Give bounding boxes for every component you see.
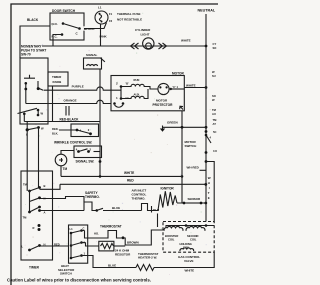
svg-text:SO: SO (212, 94, 216, 98)
wire jog neutral to valve (206, 162, 214, 222)
connector chevrons left (131, 43, 139, 49)
wire WHITE motor to neutral (184, 87, 206, 89)
svg-text:SENSOR: SENSOR (188, 197, 202, 201)
wire WHITE bus (61, 175, 182, 177)
resistor 24K (82, 243, 99, 247)
svg-text:SECOND: SECOND (187, 234, 199, 238)
svg-text:MOTOR: MOTOR (172, 72, 185, 76)
svg-text:SIGNAL: SIGNAL (86, 53, 98, 57)
svg-text:W: W (212, 70, 215, 74)
contact pair W upper (37, 109, 40, 112)
svg-text:WHITE: WHITE (124, 171, 134, 175)
svg-text:B: B (44, 184, 46, 188)
svg-text:3 8: 3 8 (213, 149, 217, 153)
svg-text:BLUE: BLUE (112, 206, 120, 210)
svg-text:WHITE: WHITE (185, 269, 195, 273)
node junction dots on neutral bus (205, 45, 208, 48)
svg-text:5C: 5C (213, 130, 216, 134)
svg-text:MOTOR: MOTOR (156, 99, 168, 103)
wire TM to signal switch (61, 151, 74, 155)
wire RED bus (60, 183, 206, 185)
connector chevrons right (159, 43, 167, 49)
wire BLACK door switch to fuse (84, 26, 96, 30)
svg-text:RED: RED (54, 242, 60, 246)
svg-text:AT: AT (213, 122, 217, 126)
svg-text:Caution Label of wires prior t: Caution Label of wires prior to disconne… (7, 278, 151, 283)
svg-text:BLACK: BLACK (27, 18, 39, 22)
switch blade long diagonal (18, 108, 38, 113)
svg-text:AU: AU (212, 112, 216, 116)
wire TM to white bus (60, 166, 62, 177)
svg-text:N: N (44, 197, 46, 201)
valve top bus (166, 225, 215, 227)
svg-text:GREEN: GREEN (167, 121, 178, 125)
timer common link (29, 191, 31, 212)
svg-text:F1: F1 (109, 12, 113, 16)
node BLU tag (151, 206, 153, 213)
svg-text:COIL: COIL (168, 238, 175, 242)
wire BLUE bottom row (82, 256, 137, 268)
svg-text:SU: SU (212, 74, 216, 78)
svg-text:ORANGE: ORANGE (64, 98, 77, 102)
svg-text:'C' 1: 'C' 1 (173, 85, 179, 89)
timer motor TM (55, 154, 67, 166)
svg-text:W: W (212, 98, 215, 102)
svg-text:TM: TM (23, 216, 28, 220)
safety thermo bump (84, 202, 97, 211)
centrifugal switch (113, 102, 116, 105)
svg-text:SWITCH: SWITCH (60, 272, 72, 276)
svg-text:THERMOSTAT: THERMOSTAT (100, 225, 122, 229)
wire stub pair (66, 106, 69, 116)
timer knob box (48, 72, 68, 86)
wire signal sw to white bus (94, 151, 101, 153)
wire RED timer to heat selector (40, 245, 69, 247)
svg-text:I: I (209, 186, 210, 190)
wire GREEN ground branch (163, 126, 207, 128)
svg-text:L: L (22, 245, 24, 249)
svg-text:WHITE: WHITE (186, 84, 196, 88)
contact L with blade (26, 122, 28, 192)
svg-text:4: 4 (80, 129, 82, 133)
wire timer N to safety (40, 197, 84, 203)
svg-text:RED: RED (127, 179, 134, 183)
second coil (186, 226, 205, 231)
svg-text:N.C.: N.C. (52, 35, 58, 39)
svg-text:T: T (208, 191, 210, 195)
svg-text:WHITE: WHITE (181, 38, 191, 42)
svg-text:NEUTRAL: NEUTRAL (198, 9, 216, 13)
wire PURPLE with hop-over arch (44, 87, 111, 90)
wire PINK row to cylinder light (42, 45, 206, 47)
svg-text:E: E (208, 196, 210, 200)
svg-text:PURPLE: PURPLE (72, 85, 84, 89)
svg-text:BOOSTER: BOOSTER (165, 234, 178, 238)
wire drop to timer B contact (38, 128, 40, 188)
svg-text:W: W (208, 176, 211, 180)
wire motor protector output down (181, 111, 183, 203)
svg-text:SWITCH: SWITCH (185, 144, 197, 148)
timer contact N (38, 196, 41, 199)
svg-text:1: 1 (84, 252, 86, 256)
svg-text:2: 2 (88, 128, 90, 132)
svg-text:SW-70: SW-70 (21, 53, 31, 57)
booster coil (164, 226, 183, 231)
svg-text:BLUE: BLUE (108, 264, 116, 268)
contact blade on safety line (96, 209, 99, 212)
svg-text:W: W (41, 112, 44, 116)
svg-text:4: 4 (210, 136, 212, 140)
heat selector switch (69, 225, 88, 263)
timer terminal pair R (38, 224, 41, 227)
wire signal box drop through arches (99, 69, 101, 176)
svg-text:F2: F2 (109, 19, 113, 23)
svg-text:2: 2 (90, 148, 92, 152)
svg-text:IGNITOR: IGNITOR (161, 187, 175, 191)
svg-text:KNOB: KNOB (53, 80, 63, 84)
svg-text:WH-RED: WH-RED (187, 165, 200, 169)
svg-text:A: A (44, 211, 46, 215)
svg-text:L1: L1 (70, 227, 74, 231)
svg-text:'B': 'B' (126, 82, 130, 86)
svg-text:THERMAL FUSE: THERMAL FUSE (117, 12, 140, 16)
svg-text:COIL: COIL (190, 238, 197, 242)
svg-text:BLK.: BLK. (52, 132, 59, 136)
svg-text:SIGNAL SW.: SIGNAL SW. (76, 160, 95, 164)
svg-text:R: R (33, 226, 35, 230)
svg-text:VALVE: VALVE (184, 259, 194, 263)
wire riser diagonal to red-black row (23, 114, 25, 122)
svg-text:RUN: RUN (134, 78, 140, 82)
svg-text:H: H (208, 181, 210, 185)
svg-text:CYLINDER: CYLINDER (135, 28, 151, 32)
svg-text:TM: TM (213, 118, 218, 122)
connector bar (157, 214, 159, 228)
svg-text:CY: CY (213, 42, 217, 46)
svg-text:TIMER: TIMER (52, 75, 62, 79)
ground symbol (162, 126, 164, 129)
gas control valve dashed enclosure (163, 222, 214, 253)
svg-text:THERMO.: THERMO. (85, 195, 100, 199)
svg-text:TM: TM (212, 108, 217, 112)
wire ORANGE with hop-over arch (26, 100, 111, 103)
push button actuator (24, 75, 35, 78)
svg-text:HO.: HO. (94, 232, 99, 236)
svg-text:RESISTOR: RESISTOR (115, 252, 131, 256)
signal switch (74, 146, 102, 158)
contact arrow to purple wire (37, 81, 39, 88)
wire RED-BLACK row (24, 121, 100, 123)
svg-text:PROTECTOR: PROTECTOR (153, 103, 174, 107)
svg-text:WRINKLE CONTROL SW.: WRINKLE CONTROL SW. (54, 140, 92, 144)
svg-text:BLACK: BLACK (84, 27, 95, 31)
svg-text:DOOR SWITCH: DOOR SWITCH (52, 9, 76, 13)
svg-text:TM: TM (63, 167, 68, 171)
svg-text:W: W (41, 127, 44, 131)
svg-text:TIMER: TIMER (29, 266, 40, 270)
wire knob box drop (52, 86, 54, 122)
wire neutral bus (205, 14, 207, 222)
svg-text:HEATER-2 W.: HEATER-2 W. (138, 256, 157, 260)
momentary push-to-start switch enclosure (20, 58, 48, 124)
timer box (21, 171, 53, 260)
wire button feed to orange corner (25, 89, 27, 104)
wire timer A to safety (40, 210, 84, 212)
svg-text:SO: SO (213, 46, 217, 50)
svg-text:HOLDING: HOLDING (180, 242, 192, 246)
svg-text:RED-BLACK: RED-BLACK (60, 118, 80, 122)
svg-text:LIGHT: LIGHT (141, 33, 150, 37)
svg-text:NOT RESETABLE: NOT RESETABLE (117, 18, 142, 22)
svg-text:BROWN: BROWN (127, 241, 139, 245)
svg-text:L1: L1 (98, 6, 102, 10)
svg-text:RED-: RED- (52, 127, 59, 131)
svg-text:N.O.: N.O. (52, 22, 58, 26)
svg-text:1: 1 (116, 96, 118, 100)
wire PINK drop from fuse (100, 24, 102, 46)
motor protector U1 (158, 83, 169, 94)
svg-text:C: C (83, 227, 85, 231)
svg-text:THERMO.: THERMO. (132, 196, 146, 200)
svg-text:PINK: PINK (100, 35, 108, 39)
svg-text:C: C (76, 32, 79, 36)
